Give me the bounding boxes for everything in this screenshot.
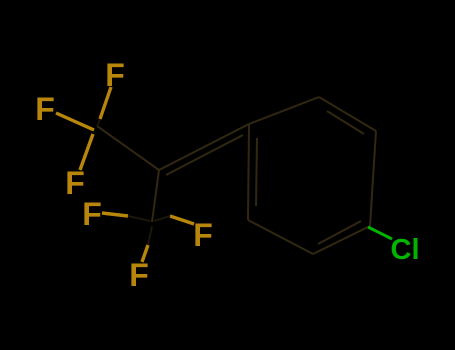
bond C4-F left (olive part): [102, 213, 128, 216]
wire C3-C2 skeleton bond: [97, 126, 159, 170]
bond C4-F bottom dark tail: [148, 226, 152, 245]
wire C2=C1 double bond second: [166, 135, 243, 175]
bond C4-F right (olive part): [170, 216, 194, 224]
benzene ring edge V6-V1: [248, 124, 249, 220]
benzene inner double line left edge: [256, 138, 257, 206]
wire C4-C2 skeleton bond: [152, 170, 159, 222]
svg-text:F: F: [129, 257, 149, 293]
bond C3-F below (olive part): [80, 134, 93, 170]
svg-text:Cl: Cl: [391, 234, 420, 266]
bond C3-F top (olive part): [100, 87, 111, 119]
svg-text:F: F: [193, 217, 213, 253]
bond C4-F right dark tail: [154, 216, 170, 221]
bond C4-F bottom (olive part): [142, 245, 148, 262]
benzene inner double line bottom-right edge: [318, 221, 361, 244]
svg-text:F: F: [82, 196, 102, 232]
benzene ring edge V1-V2: [249, 97, 319, 124]
bond C3-F top dark tail: [97, 119, 100, 126]
svg-text:F: F: [105, 57, 125, 93]
benzene ring edge V3-V4: [370, 131, 376, 226]
benzene ring edge V2-V3: [319, 97, 376, 131]
bond ring-Cl (green): [368, 227, 392, 239]
bond C4-F left dark tail: [128, 216, 150, 221]
svg-text:F: F: [35, 91, 55, 127]
wire C2=C1 double bond main: [159, 124, 249, 170]
bond C3-F left (olive part): [56, 113, 94, 130]
benzene ring edge V5-V6: [248, 220, 313, 254]
benzene inner double line top-right edge: [327, 111, 364, 134]
benzene ring edge V4-V5: [313, 226, 370, 254]
